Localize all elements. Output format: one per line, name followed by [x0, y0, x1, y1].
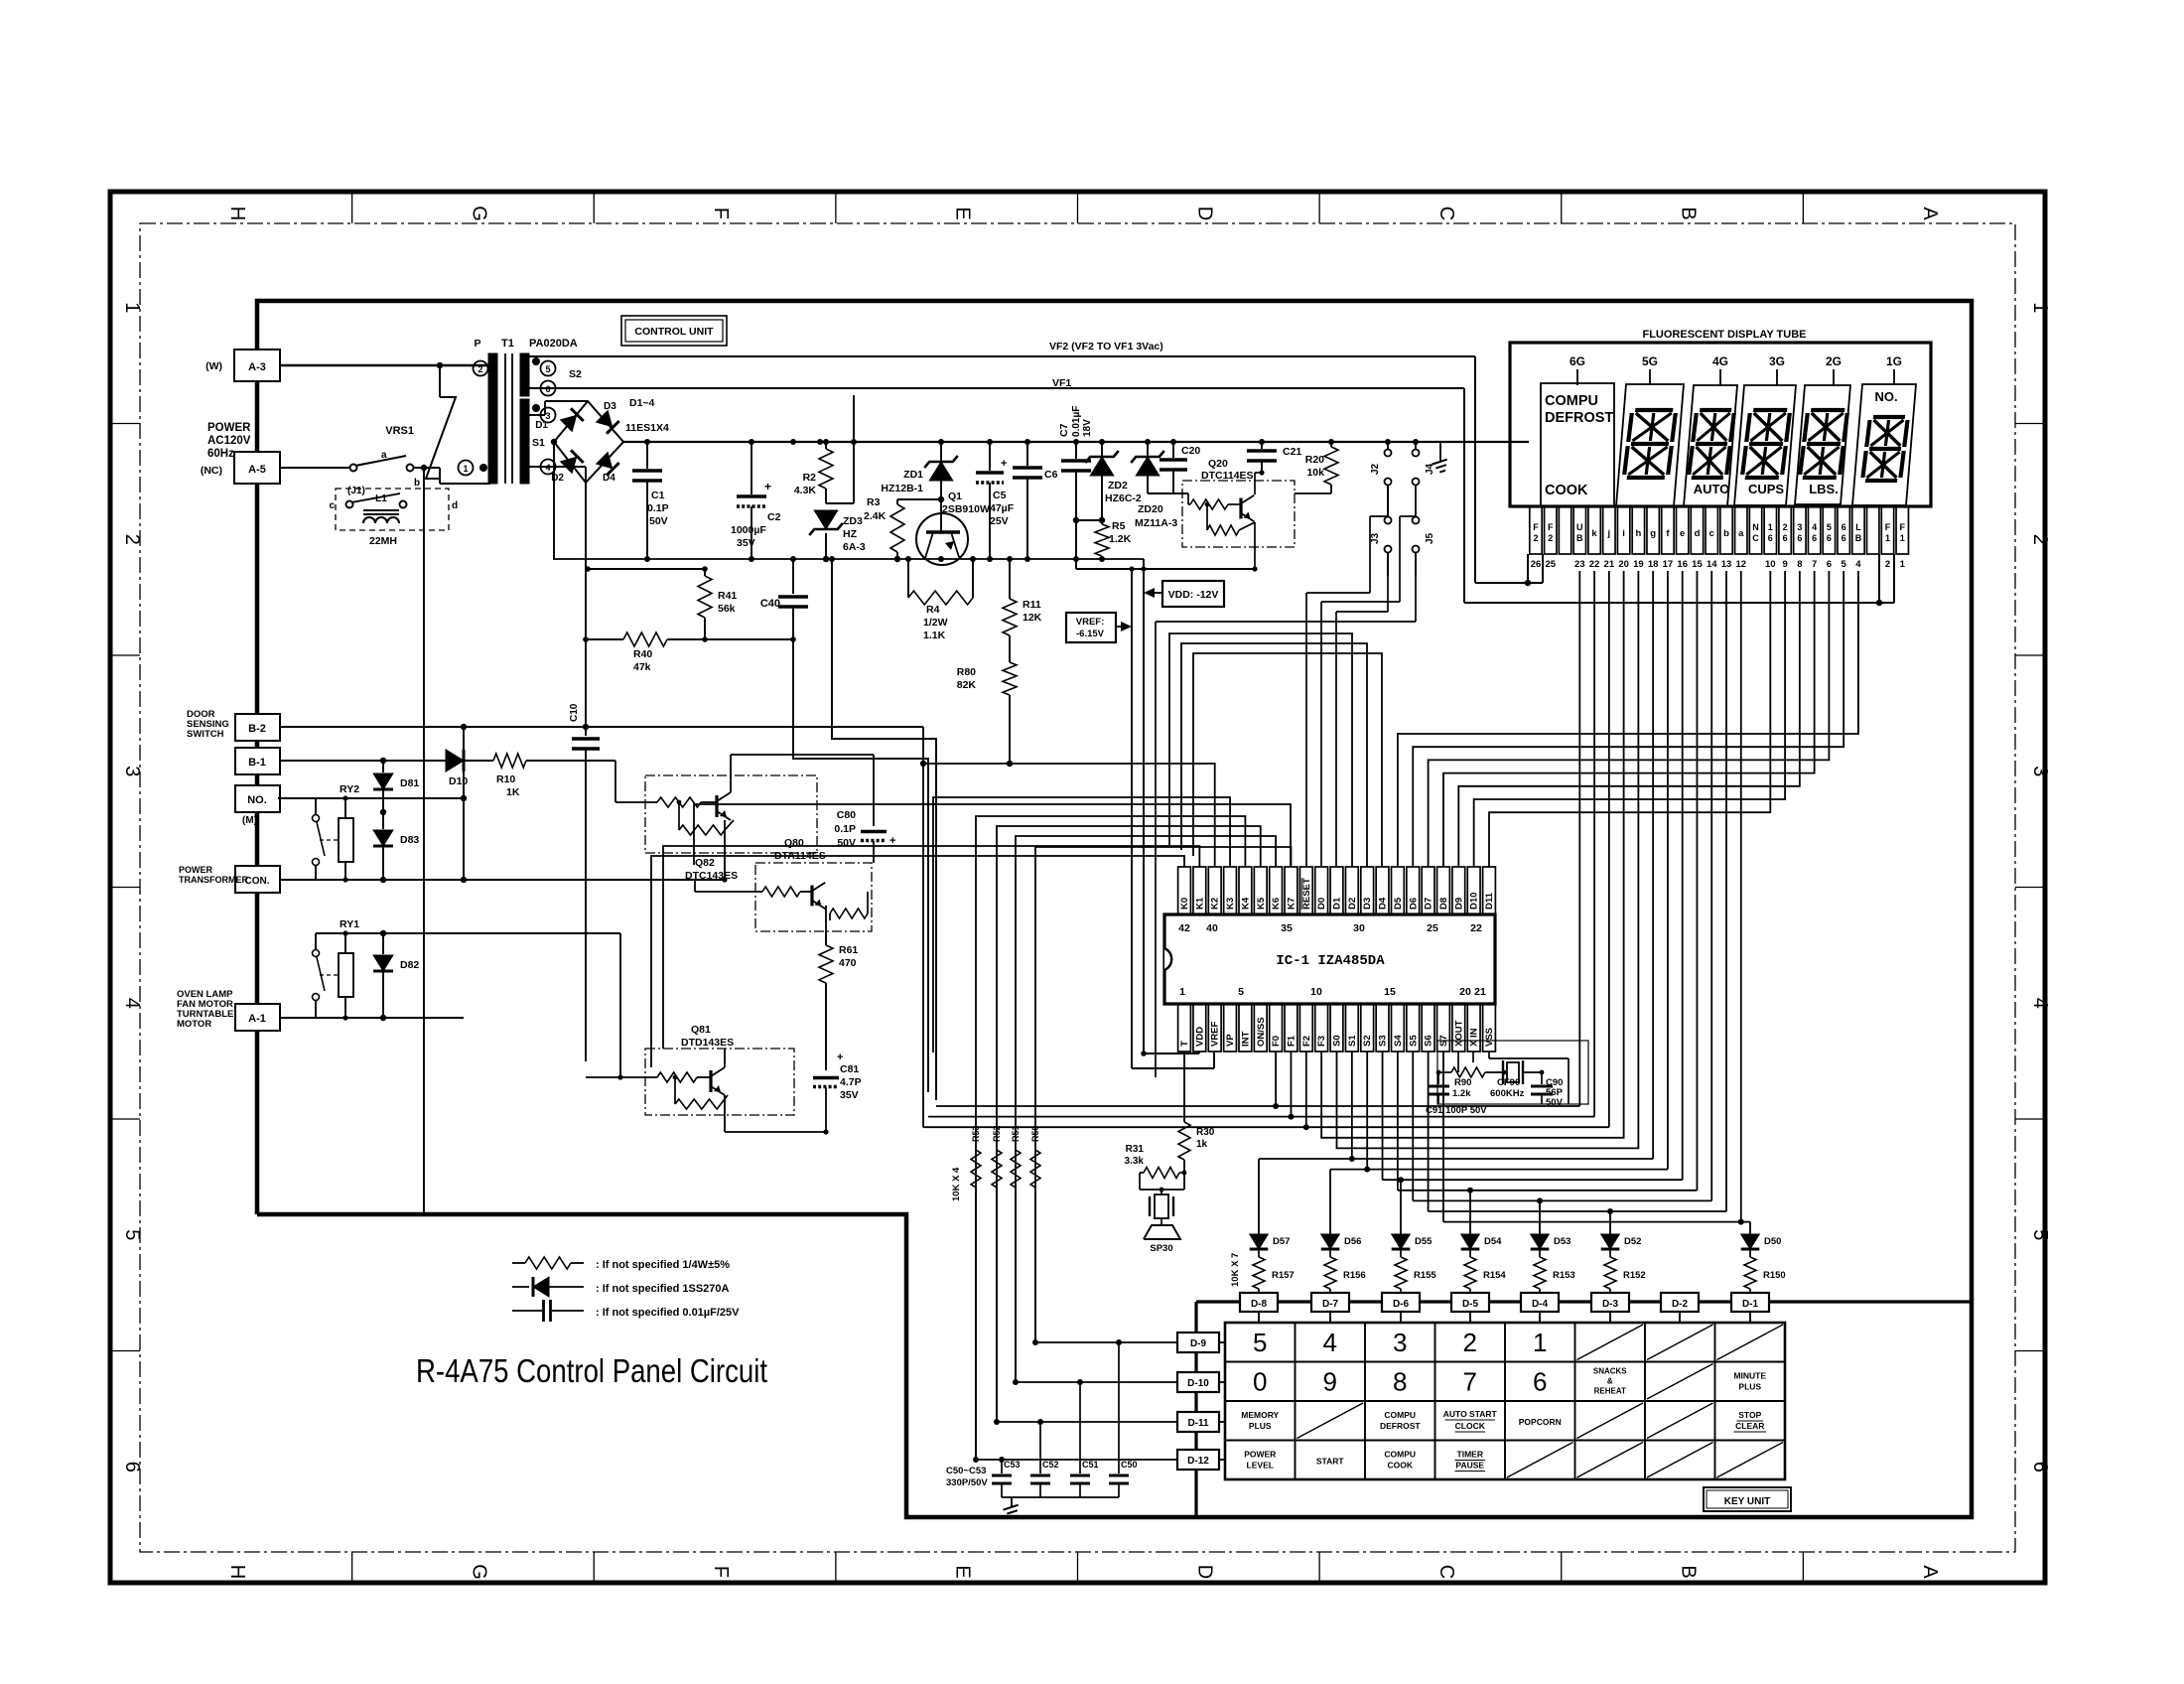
transistor Q81 DTD143ES [586, 1024, 794, 1115]
svg-text:T: T [1179, 1041, 1190, 1047]
wire VDD net to IC [1144, 1052, 1199, 1053]
capacitor C6 [1013, 442, 1058, 559]
svg-text:1: 1 [121, 302, 143, 313]
svg-text:R150: R150 [1763, 1270, 1786, 1281]
svg-text:2G: 2G [1826, 354, 1842, 368]
svg-text:CLEAR: CLEAR [1735, 1421, 1764, 1431]
varistor VRS1 [385, 365, 456, 484]
svg-text:S3: S3 [1378, 1035, 1389, 1047]
svg-text:56k: 56k [718, 603, 736, 615]
svg-text:D7: D7 [1424, 898, 1434, 910]
resistor R30 1k [1178, 1052, 1215, 1190]
svg-text:C7: C7 [1058, 423, 1070, 437]
svg-text:(NC): (NC) [201, 465, 222, 477]
svg-text:C53: C53 [1004, 1460, 1021, 1470]
svg-text:25: 25 [1545, 559, 1556, 570]
svg-text:d: d [452, 500, 458, 511]
svg-text:X IN: X IN [1469, 1028, 1480, 1047]
svg-text:R31: R31 [1126, 1144, 1145, 1155]
node D-7 [1311, 1293, 1349, 1312]
svg-text:7: 7 [1463, 1367, 1477, 1397]
node display grid 1G [1886, 354, 1902, 385]
svg-text:+: + [1001, 458, 1007, 470]
svg-text:D57: D57 [1273, 1236, 1290, 1247]
svg-text:5: 5 [2029, 1229, 2051, 1240]
diode D55 [1392, 1234, 1433, 1249]
key matrix grid [1225, 1323, 1785, 1479]
svg-text:TRANSFORMER: TRANSFORMER [179, 875, 248, 885]
diode D57 [1250, 1234, 1291, 1249]
wire VF1 filament [529, 377, 1894, 606]
svg-text:DEFROST: DEFROST [1380, 1421, 1421, 1431]
jumper J2 [1370, 442, 1392, 516]
svg-text:1G: 1G [1886, 354, 1902, 368]
svg-text:D4: D4 [603, 473, 615, 484]
svg-text:5: 5 [1253, 1328, 1267, 1357]
resistor R53 [971, 1125, 981, 1460]
svg-text:AUTO: AUTO [1694, 482, 1730, 496]
svg-text:START: START [1316, 1457, 1345, 1467]
wire bus K0-K7 lines [651, 761, 1291, 1460]
svg-text:: If not specified 0.01µF/25V: : If not specified 0.01µF/25V [596, 1307, 740, 1319]
svg-text:18: 18 [1648, 559, 1659, 570]
svg-text:R152: R152 [1623, 1270, 1646, 1281]
svg-text:1/2W: 1/2W [923, 617, 948, 629]
svg-text:R53: R53 [971, 1125, 981, 1142]
svg-text:NO.: NO. [247, 794, 267, 806]
svg-text:1.2k: 1.2k [1452, 1088, 1471, 1099]
svg-text:30: 30 [1353, 922, 1365, 934]
capacitor C50-C53 330P/50V [946, 1339, 1138, 1519]
svg-text:4: 4 [545, 463, 550, 473]
svg-text:U: U [1576, 522, 1583, 532]
svg-text:C10: C10 [569, 703, 580, 722]
display cell 5G digit [1616, 384, 1684, 506]
svg-text:21: 21 [1604, 559, 1615, 570]
diode D50 [1741, 1234, 1782, 1249]
svg-text:D81: D81 [400, 777, 419, 789]
svg-text:MEMORY: MEMORY [1241, 1410, 1279, 1420]
svg-text:ON/SS: ON/SS [1256, 1017, 1267, 1047]
svg-text:i: i [1622, 528, 1625, 539]
node D-12 [1177, 1450, 1219, 1470]
svg-text:RESET: RESET [1301, 878, 1312, 910]
node display grid 4G [1712, 354, 1728, 385]
svg-text:1000µF: 1000µF [731, 524, 766, 536]
capacitor C90 56P 50V [1531, 1072, 1564, 1108]
svg-text:D4: D4 [1378, 897, 1389, 910]
wire Q81 leads [725, 1049, 826, 1132]
svg-text:D-1: D-1 [1742, 1299, 1759, 1310]
legend capacitor spec [512, 1300, 740, 1322]
resistor R31 3.3k [1125, 1144, 1187, 1190]
svg-text:60Hz: 60Hz [207, 448, 234, 460]
svg-text:R80: R80 [957, 666, 976, 678]
svg-text:PLUS: PLUS [1738, 1382, 1761, 1392]
svg-text:D0: D0 [1316, 898, 1327, 910]
node VDD -12V [1144, 581, 1224, 607]
svg-text:B: B [1678, 207, 1700, 219]
svg-text:18V: 18V [1082, 419, 1093, 437]
wire RESET line [694, 804, 1291, 867]
display pin stubs [1530, 506, 1909, 570]
svg-text:C: C [1435, 207, 1457, 220]
svg-text:IC-1 IZA485DA: IC-1 IZA485DA [1276, 953, 1385, 969]
wire Q82 leads [722, 755, 874, 883]
svg-text:26: 26 [1531, 559, 1542, 570]
svg-text:F: F [1900, 522, 1906, 532]
svg-text:D-12: D-12 [1187, 1456, 1209, 1467]
svg-text:5G: 5G [1642, 354, 1658, 368]
svg-text:C91 100P 50V: C91 100P 50V [1426, 1105, 1487, 1116]
svg-text:DTC143ES: DTC143ES [685, 870, 738, 882]
wire bus D2-D4 lines [1169, 633, 1382, 867]
svg-text:PLUS: PLUS [1249, 1421, 1272, 1431]
svg-text:+: + [764, 480, 771, 493]
svg-text:6: 6 [1827, 559, 1832, 570]
svg-text:3G: 3G [1769, 354, 1785, 368]
svg-text:J3: J3 [1370, 532, 1381, 544]
svg-text:10: 10 [1765, 559, 1776, 570]
svg-text:47k: 47k [633, 661, 651, 673]
jumper J3 [1370, 517, 1392, 577]
svg-text:1: 1 [1768, 522, 1773, 532]
svg-text:D53: D53 [1554, 1236, 1570, 1247]
svg-text:16: 16 [1677, 559, 1688, 570]
transistor Q20 DTC114ES [1182, 458, 1295, 547]
svg-text:POWER: POWER [207, 422, 251, 434]
svg-text:C2: C2 [767, 511, 781, 523]
svg-text:D2: D2 [551, 473, 564, 484]
wire VSS rail [553, 556, 1147, 1056]
svg-text:K2: K2 [1210, 898, 1221, 910]
node VREF -6.15V [1066, 613, 1132, 642]
svg-text:A-5: A-5 [248, 464, 266, 476]
resistor R61 470 [819, 932, 858, 1070]
svg-text:D50: D50 [1764, 1236, 1781, 1247]
svg-text:COOK: COOK [1388, 1461, 1414, 1471]
svg-text:D-11: D-11 [1187, 1418, 1209, 1429]
svg-text:6: 6 [1797, 533, 1802, 543]
svg-text:D-2: D-2 [1672, 1299, 1689, 1310]
svg-text:R157: R157 [1272, 1270, 1295, 1281]
svg-text:22MH: 22MH [369, 535, 397, 547]
node COM. terminal [179, 865, 280, 893]
svg-text:ZD3: ZD3 [843, 515, 863, 527]
svg-text:D-6: D-6 [1393, 1299, 1410, 1310]
svg-text:F: F [710, 1566, 732, 1578]
svg-text:COMPU: COMPU [1545, 393, 1598, 409]
svg-text:F1: F1 [1286, 1035, 1297, 1047]
svg-text:50V: 50V [837, 837, 856, 849]
svg-text:G: G [468, 206, 489, 221]
svg-text:R155: R155 [1414, 1270, 1436, 1281]
resistor R156 [1324, 1250, 1366, 1293]
wire B-1 line [280, 758, 446, 764]
svg-text:HZ: HZ [843, 528, 858, 540]
capacitor C7 0.01uF 18V [1058, 406, 1093, 524]
svg-text:b: b [1723, 528, 1729, 539]
svg-text:C80: C80 [837, 809, 856, 821]
transformer T1 secondary S2 [520, 353, 582, 396]
svg-text:TIMER: TIMER [1457, 1450, 1483, 1460]
svg-text:A-3: A-3 [248, 361, 266, 373]
node display grid 5G [1642, 354, 1658, 385]
svg-text:F3: F3 [1316, 1036, 1327, 1047]
node D-11 [1177, 1412, 1219, 1432]
svg-text:S2: S2 [569, 368, 582, 380]
capacitor C20 [1148, 442, 1200, 493]
diode D52 [1601, 1234, 1642, 1249]
svg-text:D52: D52 [1624, 1236, 1641, 1247]
svg-text:F: F [1548, 522, 1554, 532]
wire jumper outputs [1156, 486, 1416, 1077]
svg-text:D: D [1193, 207, 1215, 220]
relay RY1 switch [313, 918, 360, 1018]
svg-text:ZD1: ZD1 [903, 469, 923, 481]
wire VF2 filament [529, 341, 1543, 586]
node display grid 3G [1769, 354, 1785, 385]
svg-text:0.01µF: 0.01µF [1071, 406, 1082, 437]
svg-text:C5: C5 [993, 490, 1007, 501]
legend diode spec [512, 1277, 730, 1297]
wire NO. node [316, 795, 467, 801]
svg-text:R5: R5 [1112, 520, 1126, 532]
svg-text:AC120V: AC120V [207, 435, 251, 447]
display cell 6G COMPU DEFROST COOK [1541, 383, 1614, 506]
svg-text:35V: 35V [737, 537, 755, 549]
IC IC-1 bottom pin stubs T-VSS [1178, 1004, 1496, 1052]
wire strobe lines D-9 to D-12 [973, 1339, 1225, 1463]
svg-text:c: c [329, 500, 335, 511]
svg-text:0.1P: 0.1P [834, 823, 856, 835]
svg-text:P: P [474, 338, 480, 350]
resistor R50 [1030, 1125, 1040, 1342]
svg-text:R51: R51 [1011, 1125, 1021, 1142]
zener diode ZD1 HZ12B-1 [881, 442, 957, 512]
svg-text:21: 21 [1474, 986, 1486, 998]
svg-text:1: 1 [463, 464, 468, 474]
svg-text:D-10: D-10 [1187, 1378, 1209, 1389]
ground rail [1432, 442, 1449, 474]
resistor R152 [1604, 1250, 1646, 1293]
svg-text:b: b [414, 478, 420, 489]
svg-text:C6: C6 [1044, 469, 1058, 481]
svg-text:6: 6 [1827, 533, 1832, 543]
svg-text:Q20: Q20 [1208, 458, 1228, 470]
svg-text:D1: D1 [1332, 897, 1343, 910]
node KEY UNIT label [1704, 1487, 1791, 1511]
svg-text:20: 20 [1618, 559, 1629, 570]
svg-text:8: 8 [1797, 559, 1802, 570]
resistor R51 [1011, 1125, 1021, 1382]
transformer T1 PA020DA primary [459, 338, 578, 484]
svg-text:D8: D8 [1438, 898, 1449, 910]
node D-9 [1177, 1333, 1219, 1352]
svg-text:3.3k: 3.3k [1125, 1156, 1145, 1167]
jumper J4 [1413, 442, 1436, 516]
svg-text:25V: 25V [990, 515, 1009, 527]
svg-text:COMPU: COMPU [1384, 1450, 1416, 1460]
resistor R20 10k [1295, 442, 1338, 493]
svg-text:-6.15V: -6.15V [1076, 629, 1105, 639]
svg-text:6: 6 [1842, 522, 1846, 532]
svg-text:22: 22 [1589, 559, 1600, 570]
svg-text:6: 6 [1768, 533, 1773, 543]
svg-text:J5: J5 [1425, 532, 1435, 544]
svg-text:a: a [1738, 528, 1744, 539]
svg-text:CONTROL UNIT: CONTROL UNIT [634, 326, 714, 338]
svg-text:KEY UNIT: KEY UNIT [1724, 1496, 1771, 1507]
svg-text:0: 0 [1253, 1367, 1267, 1397]
resistor R154 [1464, 1250, 1506, 1293]
node display grid 6G [1570, 354, 1585, 385]
svg-text:VREF: VREF [1210, 1021, 1221, 1047]
svg-text:B: B [1576, 533, 1583, 543]
resistor R40 47k [583, 632, 793, 673]
wire -12V rail [623, 439, 1529, 445]
node display grid 2G [1826, 354, 1842, 385]
svg-text:S5: S5 [1408, 1035, 1419, 1047]
capacitor C91 100P 50V [1426, 1072, 1487, 1116]
svg-text:C50: C50 [1121, 1460, 1138, 1470]
svg-text:15: 15 [1692, 559, 1703, 570]
wire Q1 emitter/collector to rail [922, 557, 961, 559]
svg-text:C81: C81 [840, 1063, 859, 1075]
svg-text:2: 2 [1548, 533, 1553, 543]
diode D54 [1461, 1234, 1502, 1249]
svg-text:COMPU: COMPU [1384, 1410, 1416, 1420]
wire R2 to ZD3 node [826, 395, 854, 503]
svg-text:CON.: CON. [245, 876, 270, 887]
svg-text:50V: 50V [649, 515, 668, 527]
node B-1 terminal [235, 748, 280, 774]
svg-text:1: 1 [1900, 533, 1905, 543]
svg-text:10: 10 [1310, 986, 1322, 998]
svg-text:K4: K4 [1240, 897, 1251, 910]
wire A-1 node [280, 933, 623, 1080]
svg-text:(W): (W) [205, 360, 222, 372]
svg-text:R41: R41 [718, 590, 737, 602]
svg-text:C50~C53: C50~C53 [946, 1466, 986, 1476]
svg-text:40: 40 [1206, 922, 1218, 934]
svg-text:R61: R61 [839, 944, 858, 956]
svg-text:R90: R90 [1454, 1077, 1471, 1088]
svg-text:R30: R30 [1196, 1127, 1215, 1138]
svg-text:1: 1 [1533, 1328, 1547, 1357]
svg-text:9: 9 [1782, 559, 1787, 570]
node D-5 [1451, 1293, 1489, 1312]
capacitor C81 4.7uF 35V [813, 1052, 862, 1135]
svg-text:d: d [1695, 528, 1701, 539]
svg-text:F2: F2 [1301, 1036, 1312, 1047]
svg-text:10K X 7: 10K X 7 [1230, 1253, 1241, 1287]
svg-text:CF90: CF90 [1497, 1077, 1520, 1088]
resistor R153 [1534, 1250, 1575, 1293]
node D-3 [1591, 1293, 1629, 1312]
node CONTROL UNIT label [621, 316, 727, 346]
svg-text:D6: D6 [1408, 898, 1419, 910]
diode bridge D1-D4 11ES1X4 [529, 397, 669, 727]
svg-text:D56: D56 [1344, 1236, 1361, 1247]
svg-text:Q81: Q81 [691, 1024, 711, 1036]
switch J1 [347, 450, 440, 496]
svg-text:D-3: D-3 [1602, 1299, 1619, 1310]
speaker SP30 [1140, 1188, 1184, 1254]
svg-text:1: 1 [1179, 986, 1185, 998]
svg-text:MINUTE: MINUTE [1733, 1371, 1766, 1381]
svg-text:2: 2 [1885, 559, 1890, 570]
wire B-2 line [280, 724, 923, 730]
wire A-3 to transformer [279, 362, 490, 368]
svg-text:SP30: SP30 [1150, 1243, 1172, 1254]
svg-text:: If not specified 1/4W±5%: : If not specified 1/4W±5% [596, 1259, 730, 1271]
capacitor C5 47uF 25V [976, 442, 1015, 559]
svg-text:e: e [1680, 528, 1685, 539]
node A-5 terminal [201, 452, 280, 484]
svg-text:LEVEL: LEVEL [1247, 1461, 1274, 1471]
svg-text:POPCORN: POPCORN [1519, 1417, 1562, 1427]
display fluorescent display tube [1510, 329, 1931, 506]
svg-text:1.2K: 1.2K [1109, 533, 1132, 545]
svg-text:5: 5 [1238, 986, 1244, 998]
svg-text:F: F [710, 208, 732, 219]
svg-text:12K: 12K [1023, 612, 1042, 624]
svg-text:VP: VP [1225, 1034, 1236, 1047]
resistor R5 1.2K [1095, 520, 1132, 559]
svg-text:K6: K6 [1271, 898, 1282, 910]
svg-text:&: & [1607, 1377, 1613, 1386]
svg-text:S1: S1 [532, 437, 545, 449]
svg-text:R11: R11 [1023, 599, 1041, 611]
svg-text:R20: R20 [1305, 454, 1324, 466]
svg-text:+: + [837, 1052, 843, 1063]
svg-text:K3: K3 [1225, 898, 1236, 910]
svg-text:MOTOR: MOTOR [177, 1019, 211, 1030]
svg-text:4: 4 [1855, 559, 1861, 570]
svg-text:11ES1X4: 11ES1X4 [625, 422, 669, 434]
svg-text:K5: K5 [1256, 897, 1267, 910]
svg-text:F0: F0 [1271, 1036, 1282, 1047]
svg-text:REHEAT: REHEAT [1594, 1387, 1626, 1396]
node A-1 terminal [177, 989, 280, 1031]
svg-text:8: 8 [1393, 1367, 1407, 1397]
svg-text:1: 1 [1885, 533, 1890, 543]
svg-text:R-4A75 Control Panel Circuit: R-4A75 Control Panel Circuit [416, 1352, 767, 1389]
resistor R157 [1253, 1250, 1295, 1293]
svg-text:N: N [1752, 522, 1759, 532]
key row 4 [1244, 1443, 1783, 1478]
node title R-4A75 Control Panel Circuit [416, 1352, 767, 1389]
svg-text:DEFROST: DEFROST [1545, 410, 1613, 426]
svg-text:D-5: D-5 [1462, 1299, 1479, 1310]
diode D53 [1531, 1234, 1571, 1249]
node NO. terminal [235, 785, 280, 826]
svg-text:5: 5 [1842, 559, 1847, 570]
svg-text:DTC114ES: DTC114ES [1201, 470, 1254, 482]
wire keypad strobe bus [1196, 1302, 1972, 1517]
wire COM. node [280, 727, 725, 883]
svg-text:R52: R52 [992, 1125, 1002, 1142]
svg-text:600KHz: 600KHz [1490, 1088, 1525, 1099]
svg-text:2SB910W: 2SB910W [942, 503, 990, 515]
svg-text:: If not specified 1SS270A: : If not specified 1SS270A [596, 1283, 730, 1295]
svg-text:Q80: Q80 [784, 837, 804, 849]
oscillator CF90 600KHz network [1436, 1041, 1588, 1104]
svg-text:C20: C20 [1181, 445, 1200, 457]
svg-text:2: 2 [478, 364, 482, 374]
zener diode ZD2 HZ6C-2 [1076, 442, 1142, 523]
